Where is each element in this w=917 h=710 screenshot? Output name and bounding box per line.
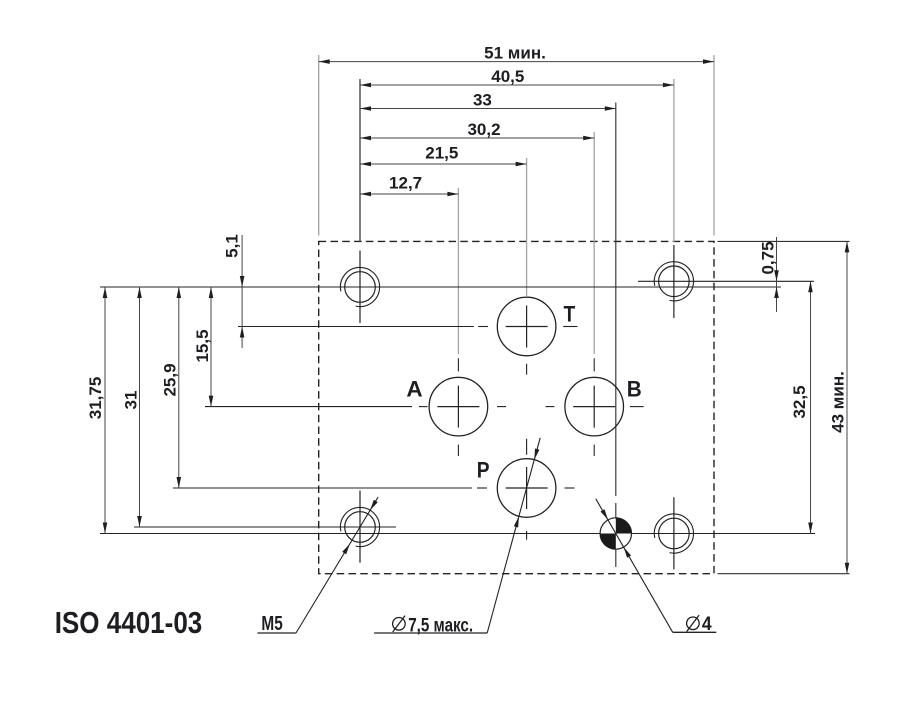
title ISO 4401-03 (55, 606, 203, 641)
mounting plate dashed outline (319, 241, 714, 573)
svg-text:A: A (406, 377, 422, 402)
svg-text:M5: M5 (261, 612, 282, 635)
extension of plate bottom edge to 43-dim (718, 573, 850, 575)
svg-text:30,2: 30,2 (467, 120, 500, 139)
port B (565, 377, 624, 436)
svg-text:31,75: 31,75 (86, 377, 105, 420)
port T (497, 297, 556, 356)
dimension 51 мин. (319, 44, 714, 64)
extension of plate top edge to 43-dim (718, 240, 850, 242)
svg-text:15,5: 15,5 (193, 329, 212, 362)
leader line Ø7,5 макс. (374, 438, 540, 636)
extension line plate left edge up (318, 55, 320, 236)
dimension 31,75 (86, 287, 107, 534)
extension line T column (526, 158, 528, 296)
label P (477, 458, 490, 483)
svg-text:31: 31 (122, 391, 141, 410)
leader line Ø4 (596, 499, 717, 634)
center dash above P (526, 439, 528, 455)
extension line left hole column (359, 79, 361, 242)
center dash below T (526, 364, 528, 375)
svg-text:25,9: 25,9 (161, 363, 180, 396)
svg-text:P: P (477, 458, 490, 483)
label T (564, 302, 576, 327)
mounting hole M5 bottom-left (340, 491, 379, 563)
row line left top holes (100, 286, 781, 288)
svg-text:5,1: 5,1 (223, 234, 242, 258)
mounting hole M5 top-left (340, 251, 379, 324)
center dash below B (593, 445, 595, 456)
svg-text:12,7: 12,7 (389, 174, 422, 193)
center dash below P (526, 531, 528, 540)
extension line plate right edge up (713, 55, 715, 236)
mounting hole M5 top-right (654, 245, 693, 318)
center dash above A (457, 358, 459, 371)
dimension 12,7 (360, 174, 458, 197)
label A (406, 377, 422, 402)
row line P port (173, 487, 575, 489)
svg-text:T: T (564, 302, 576, 327)
extension line right hole column (673, 79, 675, 242)
mounting hole M5 bottom-right (654, 497, 693, 569)
svg-text:B: B (627, 376, 642, 402)
center dash above B (593, 358, 595, 371)
center dash below A (457, 445, 459, 456)
svg-text:ISO 4401-03: ISO 4401-03 (55, 606, 203, 641)
port P (497, 459, 556, 518)
svg-text:0,75: 0,75 (759, 241, 778, 274)
dimension 40,5 (360, 67, 674, 87)
pin hole Ø4 (600, 518, 631, 549)
row line bottom left hole (31) (134, 526, 396, 528)
row line T port (238, 326, 577, 328)
dimension 43 мин. (829, 241, 850, 573)
dimension 25,9 (161, 287, 182, 488)
svg-text:4: 4 (702, 612, 712, 634)
row line A-B ports (205, 406, 644, 408)
dimension 5,1 (223, 234, 245, 348)
svg-text:21,5: 21,5 (425, 144, 458, 163)
dimension 31 (122, 287, 142, 527)
extension line B column (593, 132, 595, 354)
svg-text:7,5 макс.: 7,5 макс. (408, 613, 473, 635)
dimension 30,2 (360, 120, 594, 140)
label B (627, 376, 642, 402)
svg-text:33: 33 (473, 91, 492, 110)
extension line pin column (615, 103, 617, 568)
port A (429, 377, 488, 436)
svg-text:40,5: 40,5 (491, 67, 524, 86)
dimension 15,5 (193, 287, 213, 407)
svg-text:43 мин.: 43 мин. (829, 371, 848, 433)
svg-text:51 мин.: 51 мин. (484, 44, 546, 63)
dimension 0,75 (759, 237, 779, 312)
dimension 21,5 (360, 144, 527, 167)
row line bottom right holes (31,75) (100, 533, 815, 535)
row line right top holes (0,75) (638, 280, 814, 282)
dimension 33 (360, 91, 616, 111)
extension line A column (457, 188, 459, 354)
dimension 32,5 (790, 281, 813, 533)
svg-text:32,5: 32,5 (790, 385, 809, 418)
leader line M5 (257, 497, 378, 635)
